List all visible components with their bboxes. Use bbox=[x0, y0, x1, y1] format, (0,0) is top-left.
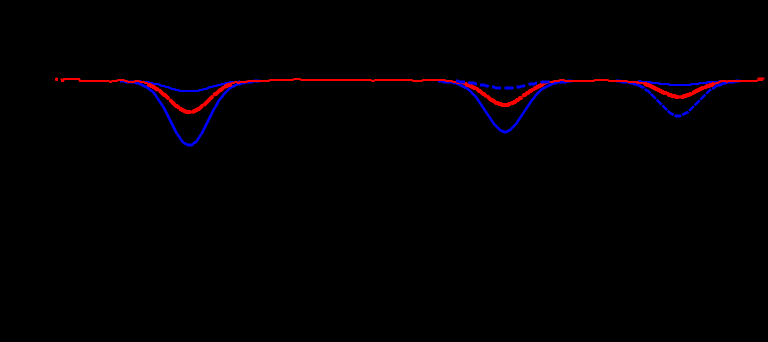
deep blue model curve at dip 2 (solid) bbox=[438, 81, 572, 132]
red data curve thick overdraw at dip 1 bbox=[148, 84, 231, 112]
raised red data step at right end bbox=[758, 77, 765, 79]
red data curve thick overdraw at dip 3 bbox=[644, 84, 714, 97]
red data curve thick overdraw at dip 2 bbox=[465, 84, 544, 105]
deep blue model curve at dip 3 flanks (solid, under red) bbox=[616, 81, 640, 86]
isolated red data point at left end bbox=[55, 78, 58, 81]
red data curve baseline bbox=[61, 79, 763, 112]
short red data mark left of trace start bbox=[61, 78, 64, 81]
shallow blue model curve at dip 3 (solid) bbox=[638, 81, 722, 85]
shallow blue model curve at dip 1 (solid) bbox=[138, 81, 240, 91]
deep blue model curve at dip 3 core (dashed, over red) bbox=[638, 85, 718, 116]
deep blue model curve at dip 1 (solid) bbox=[120, 81, 260, 145]
shallow blue model curve at dip 2 (dashed, over red) bbox=[456, 81, 552, 88]
